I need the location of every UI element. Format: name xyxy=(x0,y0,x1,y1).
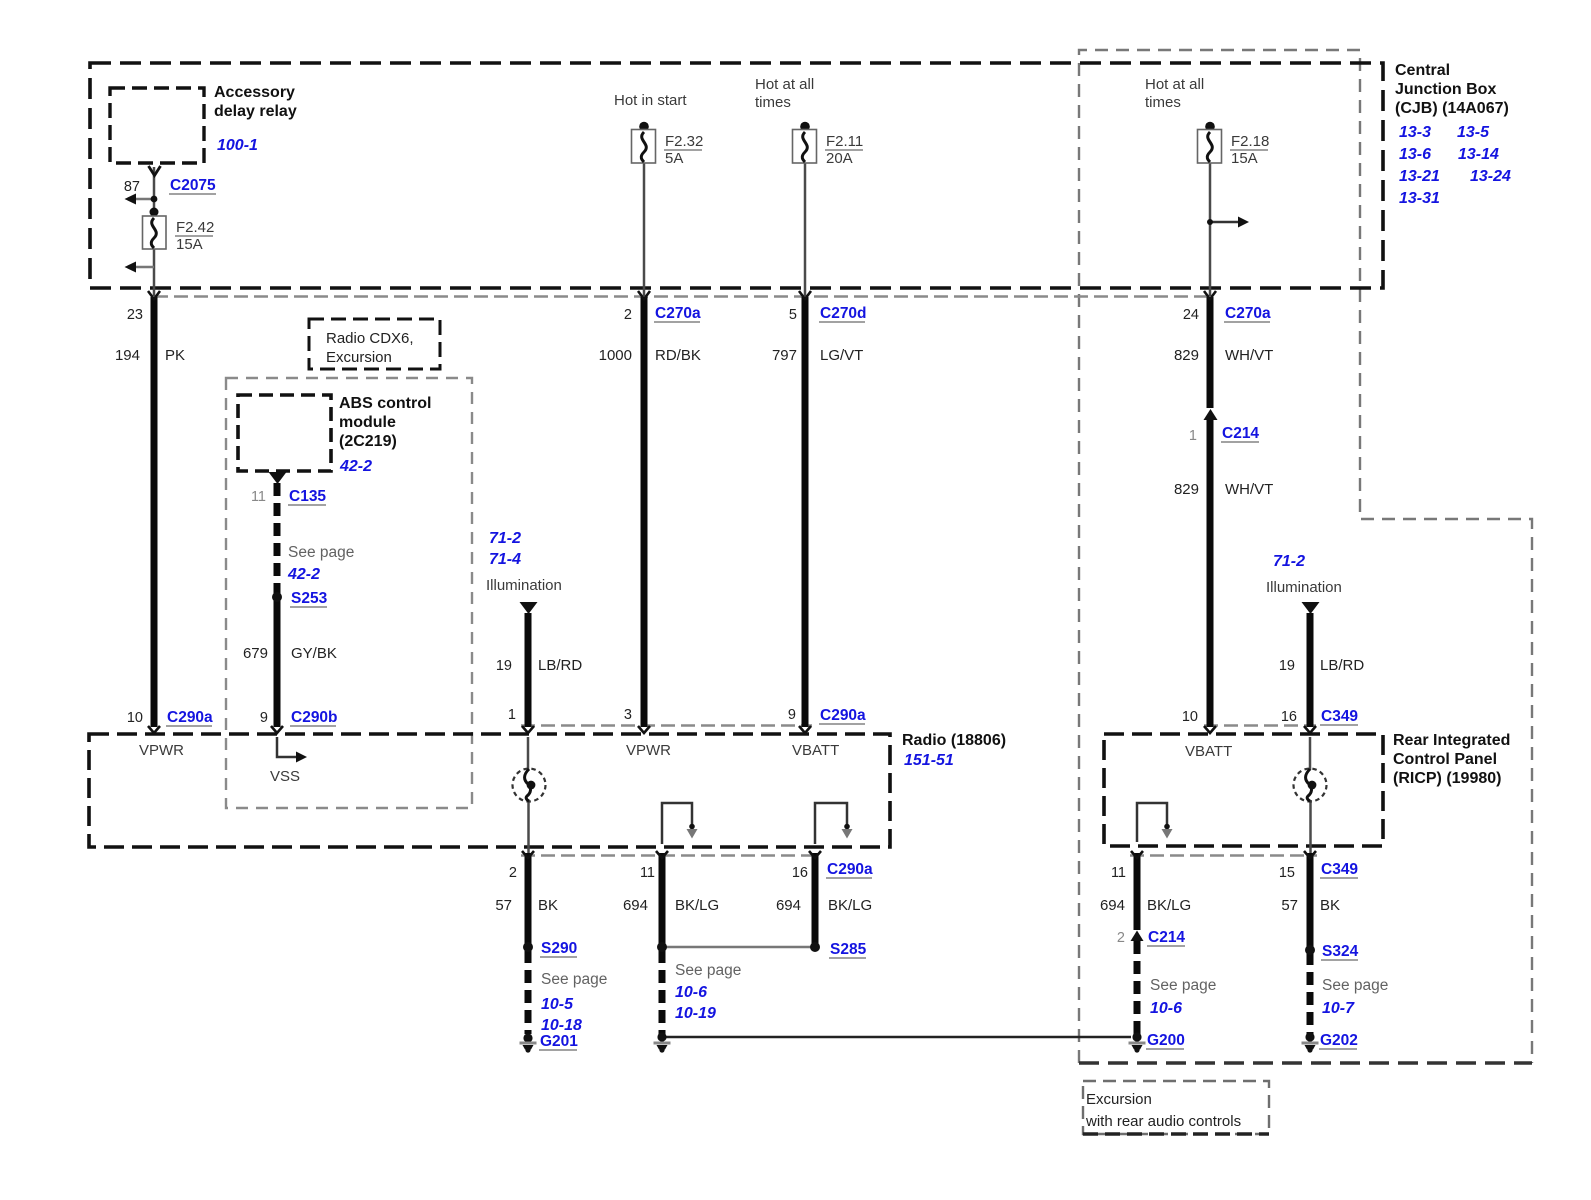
svg-text:13-14: 13-14 xyxy=(1458,146,1499,163)
label wire 679 GY/BK xyxy=(243,645,337,662)
svg-text:Illumination: Illumination xyxy=(486,577,562,594)
svg-text:C349: C349 xyxy=(1321,708,1358,725)
label radio title xyxy=(902,732,1006,769)
svg-text:16: 16 xyxy=(1281,709,1297,725)
chevron pin15 RICP bottom xyxy=(1304,851,1316,858)
ground G201 xyxy=(520,1033,537,1052)
svg-text:42-2: 42-2 xyxy=(287,566,320,583)
arrow left upper (to other circuits) xyxy=(125,194,137,205)
svg-text:13-31: 13-31 xyxy=(1399,190,1440,207)
fuse F2.11 20A xyxy=(793,122,817,163)
wire BK/LG thick (x1137 circuit 694) xyxy=(1134,853,1141,930)
label pin16 C349 xyxy=(1281,708,1359,725)
chevron pin16 RICP xyxy=(1304,726,1316,733)
svg-text:194: 194 xyxy=(115,347,140,364)
svg-text:3: 3 xyxy=(624,707,632,723)
svg-text:S324: S324 xyxy=(1322,943,1359,960)
label radio CDX6 box xyxy=(326,330,414,366)
wire dashed below S285 junction (x662) xyxy=(659,950,666,1034)
RICP box xyxy=(1104,734,1383,846)
chevron pin1 radio xyxy=(522,726,534,733)
svg-text:Junction Box: Junction Box xyxy=(1395,81,1496,98)
svg-text:1000: 1000 xyxy=(599,347,632,364)
label see page 42-2 xyxy=(287,544,354,583)
chevron pin10 RICP xyxy=(1204,726,1216,733)
svg-text:10-6: 10-6 xyxy=(675,984,707,1001)
label hot at all times right xyxy=(1145,76,1204,111)
svg-text:(2C219): (2C219) xyxy=(339,433,397,450)
wire BK dashed to G202 (x1310) xyxy=(1307,952,1314,1034)
ground G200 xyxy=(1129,1032,1146,1052)
wire splice link S285 xyxy=(662,946,815,949)
label pin9 C290b xyxy=(260,709,338,726)
svg-text:with rear audio controls: with rear audio controls xyxy=(1085,1113,1241,1130)
svg-text:15A: 15A xyxy=(176,236,203,253)
svg-text:C290a: C290a xyxy=(820,707,866,724)
arrow VSS xyxy=(296,752,307,763)
wire LG/VT thick (x805 circuit 797) xyxy=(802,297,809,727)
svg-text:71-2: 71-2 xyxy=(489,530,521,547)
wire RD/BK thick (x644 circuit 1000) xyxy=(641,297,648,727)
svg-text:BK: BK xyxy=(1320,897,1340,914)
accessory delay relay box xyxy=(110,88,204,163)
junction dot CJB branch xyxy=(1207,219,1213,225)
svg-text:829: 829 xyxy=(1174,347,1199,364)
wire ABS dashed segment (x277) xyxy=(274,483,281,597)
wire GY/BK thick (x277 circuit 679) xyxy=(274,597,281,727)
svg-text:WH/VT: WH/VT xyxy=(1225,347,1273,364)
svg-text:71-4: 71-4 xyxy=(489,551,521,568)
label wire 829 WH/VT lower xyxy=(1174,481,1273,498)
svg-text:10-19: 10-19 xyxy=(675,1005,716,1022)
label see page 10-6 10-19 xyxy=(675,962,741,1022)
chevron pin9 radio xyxy=(799,726,811,733)
svg-text:C270d: C270d xyxy=(820,305,867,322)
svg-text:F2.42: F2.42 xyxy=(176,219,214,236)
label wire 694 BK/LG right xyxy=(776,897,872,914)
svg-text:16: 16 xyxy=(792,865,808,881)
svg-text:5: 5 xyxy=(789,307,797,323)
label 71-2 illumination right xyxy=(1266,553,1342,596)
chevron pin3 radio xyxy=(638,726,650,733)
svg-text:20A: 20A xyxy=(826,150,853,167)
label pin15 C349 bottom xyxy=(1279,861,1359,881)
splice S253 xyxy=(272,592,282,602)
svg-text:Hot at all: Hot at all xyxy=(1145,76,1204,93)
svg-text:WH/VT: WH/VT xyxy=(1225,481,1273,498)
svg-text:2: 2 xyxy=(624,307,632,323)
svg-text:19: 19 xyxy=(1279,658,1295,674)
label wire 57 BK left xyxy=(495,897,558,914)
label see page 10-7 G202 xyxy=(1320,977,1388,1049)
svg-text:BK/LG: BK/LG xyxy=(1147,897,1191,914)
wire BK/LG thick (x815 circuit 694) xyxy=(812,853,819,946)
fuse F2.32 5A xyxy=(632,122,656,163)
wire under fuse F2.32 thin (x644) xyxy=(643,163,646,296)
arrow right CJB branch xyxy=(1238,217,1249,228)
arrow hook radio pin16 xyxy=(844,824,850,830)
svg-text:829: 829 xyxy=(1174,481,1199,498)
svg-text:See page: See page xyxy=(1150,977,1216,994)
svg-text:Radio (18806): Radio (18806) xyxy=(902,732,1006,749)
svg-text:9: 9 xyxy=(260,710,268,726)
label wire 1000 RD/BK xyxy=(599,347,701,364)
svg-text:C349: C349 xyxy=(1321,861,1358,878)
wire BK/LG thick (x662 circuit 694) xyxy=(659,853,666,947)
svg-text:S253: S253 xyxy=(291,590,328,607)
svg-text:679: 679 xyxy=(243,645,268,662)
fuse F2.18 15A xyxy=(1198,122,1222,163)
svg-text:694: 694 xyxy=(1100,897,1125,914)
svg-text:10: 10 xyxy=(127,710,143,726)
svg-text:13-6: 13-6 xyxy=(1399,146,1431,163)
connector C214 inline symbol (x1137) xyxy=(1131,931,1144,942)
svg-text:F2.32: F2.32 xyxy=(665,133,703,150)
wire illumination through radio thin (x528) xyxy=(527,737,530,770)
svg-text:F2.18: F2.18 xyxy=(1231,133,1269,150)
svg-text:C270a: C270a xyxy=(1225,305,1271,322)
svg-text:10-7: 10-7 xyxy=(1322,1000,1355,1017)
connector line RICP top xyxy=(1204,724,1316,727)
svg-text:GY/BK: GY/BK xyxy=(291,645,337,662)
svg-text:797: 797 xyxy=(772,347,797,364)
ground G202 xyxy=(1302,1032,1319,1052)
svg-text:times: times xyxy=(1145,94,1181,111)
top power distribution box (CJB bus) xyxy=(90,63,1383,288)
label pin9 C290a radio xyxy=(788,707,866,724)
label pin2 C270a xyxy=(624,305,701,323)
label pin10 C290a xyxy=(127,709,213,726)
label wire 797 LG/VT xyxy=(772,347,863,364)
chevron wire 2 at bus exit xyxy=(638,291,650,299)
svg-text:10: 10 xyxy=(1182,709,1198,725)
connector line RICP bottom xyxy=(1130,854,1317,857)
svg-text:C214: C214 xyxy=(1148,929,1185,946)
CJB tall dashed box (right) xyxy=(1079,50,1532,1063)
svg-text:2: 2 xyxy=(509,865,517,881)
svg-text:11: 11 xyxy=(251,489,266,505)
svg-text:C290a: C290a xyxy=(827,861,873,878)
illumination feed triangle right xyxy=(1302,602,1320,614)
svg-text:PK: PK xyxy=(165,347,185,364)
wire WH/VT thick lower (x1210 circuit 829) xyxy=(1207,420,1214,727)
svg-text:C2075: C2075 xyxy=(170,177,216,194)
wire dashed below C214 to G200 (x1137) xyxy=(1134,941,1141,1034)
label wire 19 LB/RD right xyxy=(1279,657,1364,674)
svg-text:C290a: C290a xyxy=(167,709,213,726)
svg-text:C290b: C290b xyxy=(291,709,338,726)
svg-text:11: 11 xyxy=(640,865,655,881)
connector C214 inline symbol (x1210) xyxy=(1204,409,1218,420)
ground junction middle (x662) xyxy=(654,1032,671,1052)
svg-text:BK/LG: BK/LG xyxy=(828,897,872,914)
wire hook RICP pin11 xyxy=(1137,803,1167,842)
connector line radio top xyxy=(521,724,812,727)
svg-text:delay relay: delay relay xyxy=(214,103,297,120)
svg-text:Hot in start: Hot in start xyxy=(614,92,687,109)
svg-text:694: 694 xyxy=(623,897,648,914)
svg-text:BK: BK xyxy=(538,897,558,914)
svg-text:G200: G200 xyxy=(1147,1032,1185,1049)
chevron wire 5 at bus exit xyxy=(799,291,811,299)
label pin24 C270a xyxy=(1183,305,1271,323)
wire LB/RD thick right (x1310 circuit 19) xyxy=(1307,613,1314,727)
label pin11 C135 xyxy=(251,488,326,505)
label hot at all times mid xyxy=(755,76,814,111)
connector C135 arrow below ABS module xyxy=(269,472,287,484)
svg-text:57: 57 xyxy=(1281,897,1298,914)
svg-text:57: 57 xyxy=(495,897,512,914)
label wire 694 BK/LG mid xyxy=(623,897,719,914)
svg-text:100-1: 100-1 xyxy=(217,137,258,154)
chevron wire 24 at bus exit xyxy=(1204,291,1216,299)
wire under fuse F2.11 thin (x805) xyxy=(804,163,807,296)
svg-text:10-5: 10-5 xyxy=(541,996,574,1013)
label excursion box xyxy=(1085,1091,1241,1130)
svg-text:11: 11 xyxy=(1111,865,1126,881)
svg-text:151-51: 151-51 xyxy=(904,752,954,769)
svg-text:LB/RD: LB/RD xyxy=(538,657,582,674)
svg-text:RD/BK: RD/BK xyxy=(655,347,701,364)
arrow hook radio pin11 xyxy=(689,824,695,830)
svg-text:(CJB) (14A067): (CJB) (14A067) xyxy=(1395,100,1509,117)
label wire 694 BK/LG RICP xyxy=(1100,897,1191,914)
wire fuse F2.42 feed arrow upper xyxy=(136,198,154,201)
wire BK thick (x528 circuit 57) xyxy=(525,853,532,947)
connector line C270 under bus box xyxy=(154,295,1211,298)
svg-text:Rear Integrated: Rear Integrated xyxy=(1393,732,1510,749)
label see page 10-5 10-18 G201 xyxy=(540,971,607,1050)
UNDERLINES (gray) for connector/splice/fuse labels xyxy=(166,150,1358,1050)
connector chevron C2075 below relay xyxy=(149,166,161,176)
svg-text:87: 87 xyxy=(124,179,140,195)
svg-text:42-2: 42-2 xyxy=(339,458,372,475)
label pin2 C214 xyxy=(1117,929,1186,946)
svg-text:See page: See page xyxy=(1322,977,1388,994)
chevron pin10 radio xyxy=(148,726,160,733)
svg-text:See page: See page xyxy=(288,544,354,561)
splice S285 xyxy=(810,942,820,952)
svg-text:Hot at all: Hot at all xyxy=(755,76,814,93)
svg-text:S285: S285 xyxy=(830,941,867,958)
label wire 19 LB/RD left xyxy=(496,657,582,674)
lamp symbol radio illumination xyxy=(513,769,546,802)
wire hook radio pin16 xyxy=(815,803,847,844)
svg-text:19: 19 xyxy=(496,658,512,674)
connector line radio bottom xyxy=(521,854,819,857)
svg-text:13-5: 13-5 xyxy=(1457,124,1490,141)
wire fuse F2.42 feed arrow lower xyxy=(136,266,154,269)
splice S324 xyxy=(1305,945,1315,955)
svg-text:C135: C135 xyxy=(289,488,326,505)
label C2075 pin87 xyxy=(124,177,216,195)
svg-text:10-6: 10-6 xyxy=(1150,1000,1182,1017)
wire illumination through RICP thin (x1310) xyxy=(1309,737,1312,770)
svg-text:1: 1 xyxy=(508,707,516,723)
wire BK dashed to G201 (x528) xyxy=(525,950,532,1034)
label RICP title xyxy=(1393,732,1510,787)
label pin1 C214 xyxy=(1189,425,1260,444)
svg-text:VSS: VSS xyxy=(270,768,300,785)
fuse F2.42 15A xyxy=(143,208,167,250)
svg-text:Excursion: Excursion xyxy=(1086,1091,1152,1108)
wire CJB arrow branch (x1210) xyxy=(1210,221,1238,224)
svg-text:Accessory: Accessory xyxy=(214,84,295,101)
svg-text:LB/RD: LB/RD xyxy=(1320,657,1364,674)
svg-text:BK/LG: BK/LG xyxy=(675,897,719,914)
chevron wire 23 at bus exit xyxy=(148,291,160,299)
svg-text:13-24: 13-24 xyxy=(1470,168,1511,185)
svg-text:Excursion: Excursion xyxy=(326,349,392,366)
svg-text:24: 24 xyxy=(1183,307,1199,323)
svg-text:C270a: C270a xyxy=(655,305,701,322)
svg-text:VBATT: VBATT xyxy=(1185,743,1232,760)
label 71-2 71-4 illumination left xyxy=(486,530,562,594)
chevron pin11 RICP bottom xyxy=(1131,851,1143,858)
svg-text:G202: G202 xyxy=(1320,1032,1358,1049)
label pin16 C290a radio bottom xyxy=(792,861,873,881)
label fuse F2.42 xyxy=(176,219,214,253)
label central junction box xyxy=(1395,62,1511,207)
label pin5 C270d xyxy=(789,305,867,323)
wire under fuse F2.18 thin (x1210) xyxy=(1209,163,1212,296)
svg-text:G201: G201 xyxy=(540,1033,578,1050)
label fuse F2.18 xyxy=(1231,133,1269,167)
label wire 194 PK xyxy=(115,347,185,364)
wire PK thick (x154 circuit 194) xyxy=(151,297,158,727)
wire relay output thin (x154) xyxy=(153,167,156,296)
arrow hook RICP pin11 xyxy=(1164,824,1170,830)
Radio CDX6 Excursion label box xyxy=(309,319,440,369)
svg-text:Central: Central xyxy=(1395,62,1450,79)
label see page 10-6 G200 xyxy=(1147,977,1216,1049)
label ABS control module xyxy=(339,395,431,475)
lamp symbol RICP illumination xyxy=(1294,769,1327,802)
wire WH/VT thick upper (x1210 circuit 829) xyxy=(1207,297,1214,408)
svg-text:times: times xyxy=(755,94,791,111)
chevron pin16 radio bottom xyxy=(809,851,821,858)
illumination feed triangle left xyxy=(520,602,538,614)
chevron pin9 C290b radio xyxy=(271,726,283,733)
svg-text:See page: See page xyxy=(541,971,607,988)
Excursion label box xyxy=(1083,1081,1269,1134)
svg-text:Control Panel: Control Panel xyxy=(1393,751,1497,768)
svg-text:VPWR: VPWR xyxy=(139,742,184,759)
svg-text:2: 2 xyxy=(1117,930,1125,946)
svg-text:VPWR: VPWR xyxy=(626,742,671,759)
svg-text:Illumination: Illumination xyxy=(1266,579,1342,596)
svg-text:15: 15 xyxy=(1279,865,1295,881)
wire LB/RD thick left (x528 circuit 19) xyxy=(525,613,532,727)
svg-text:C214: C214 xyxy=(1222,425,1259,442)
svg-text:71-2: 71-2 xyxy=(1273,553,1305,570)
svg-text:module: module xyxy=(339,414,396,431)
ABS variant gray box xyxy=(226,378,472,808)
svg-text:694: 694 xyxy=(776,897,801,914)
svg-text:S290: S290 xyxy=(541,940,577,957)
svg-text:Radio CDX6,: Radio CDX6, xyxy=(326,330,414,347)
wire BK thick (x1310 circuit 57) xyxy=(1307,853,1314,949)
Radio box xyxy=(89,734,890,847)
wire ground link G200 horizontal xyxy=(666,1036,1131,1039)
label fuse F2.11 xyxy=(826,133,863,167)
svg-text:10-18: 10-18 xyxy=(541,1017,582,1034)
svg-text:ABS control: ABS control xyxy=(339,395,431,412)
svg-text:13-21: 13-21 xyxy=(1399,168,1440,185)
svg-text:F2.11: F2.11 xyxy=(826,133,863,150)
svg-text:13-3: 13-3 xyxy=(1399,124,1431,141)
junction dot at feed arrow xyxy=(151,196,158,203)
svg-text:See page: See page xyxy=(675,962,741,979)
chevron pin2 radio bottom xyxy=(522,851,534,858)
arrow left lower (to other circuits) xyxy=(125,262,137,273)
wire VSS hook xyxy=(277,737,296,757)
svg-text:5A: 5A xyxy=(665,150,683,167)
label fuse F2.32 xyxy=(665,133,703,167)
svg-text:15A: 15A xyxy=(1231,150,1258,167)
splice junction on x662 xyxy=(657,942,667,952)
wire hook radio pin11 xyxy=(662,803,692,844)
label accessory delay relay xyxy=(214,84,297,154)
chevron pin11 radio bottom xyxy=(656,851,668,858)
svg-text:LG/VT: LG/VT xyxy=(820,347,863,364)
svg-text:23: 23 xyxy=(127,307,143,323)
label wire 829 WH/VT upper xyxy=(1174,347,1273,364)
svg-text:9: 9 xyxy=(788,707,796,723)
svg-text:VBATT: VBATT xyxy=(792,742,839,759)
label wire 57 BK RICP xyxy=(1281,897,1340,914)
ABS control module box xyxy=(238,395,331,471)
svg-text:(RICP) (19980): (RICP) (19980) xyxy=(1393,770,1501,787)
svg-text:1: 1 xyxy=(1189,428,1197,444)
splice S290 xyxy=(523,942,533,952)
